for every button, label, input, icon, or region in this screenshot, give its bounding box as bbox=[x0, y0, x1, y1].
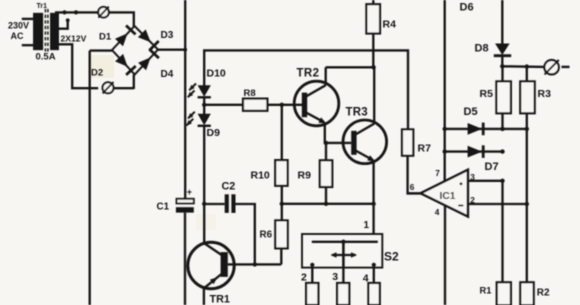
node R9 top junction bbox=[324, 141, 328, 145]
svg-text:0.5A: 0.5A bbox=[36, 52, 56, 63]
resistor R1 bbox=[497, 282, 511, 305]
capacitor C1 bbox=[176, 199, 194, 213]
transistor TR3 collector bbox=[356, 124, 375, 135]
svg-text:D5: D5 bbox=[464, 106, 478, 118]
label R10 bbox=[251, 170, 270, 182]
wire R9 bottom lead bbox=[325, 187, 327, 204]
label R2 bbox=[537, 287, 550, 298]
wire IC1 pin3 input bbox=[468, 180, 503, 182]
svg-text:D2: D2 bbox=[91, 68, 103, 79]
wire primary bottom stub bbox=[22, 44, 35, 46]
wire bridge right vertex to bus bbox=[158, 49, 185, 51]
wire S2 pin2 down bbox=[311, 265, 313, 283]
node D8 output junction bbox=[500, 64, 504, 68]
wire S2 pin1 bbox=[372, 204, 374, 234]
resistor R10 bbox=[275, 160, 287, 186]
wire R10 top lead bbox=[281, 105, 283, 160]
svg-text:S2: S2 bbox=[384, 250, 399, 264]
svg-text:D4: D4 bbox=[161, 69, 174, 80]
label R3 bbox=[538, 88, 552, 100]
wire IC1 pin7 supply bbox=[444, 0, 446, 181]
resistor R6 bbox=[275, 220, 287, 248]
svg-text:R7: R7 bbox=[418, 143, 432, 155]
label 2X12V bbox=[61, 34, 87, 44]
wire pin3 node down to R1 bbox=[501, 181, 503, 282]
node R9 bottom junction bbox=[324, 202, 328, 206]
node S2 pin2 bbox=[310, 263, 314, 267]
svg-text:TR2: TR2 bbox=[297, 68, 320, 80]
transformer Tr1 label bbox=[37, 3, 48, 10]
svg-text:6: 6 bbox=[410, 182, 415, 192]
label pin 3 bbox=[470, 172, 475, 182]
label pin 2 bbox=[470, 195, 475, 205]
wire main positive bus vertical bbox=[184, 0, 186, 199]
wire TR2 collector to R4 node bbox=[326, 66, 374, 68]
label R1 bbox=[480, 286, 492, 296]
svg-text:D9: D9 bbox=[207, 127, 221, 139]
wire primary top stub bbox=[22, 18, 35, 20]
wire R5 top lead bbox=[501, 66, 503, 81]
wire D8 cathode bbox=[501, 56, 503, 67]
svg-text:C1: C1 bbox=[157, 202, 170, 213]
svg-text:R5: R5 bbox=[480, 88, 494, 100]
wire minus output bbox=[502, 65, 544, 68]
wire IC1 pin2 input bbox=[468, 203, 527, 205]
resistor R5 bbox=[496, 81, 511, 113]
svg-text:R8: R8 bbox=[244, 88, 256, 99]
svg-text:+: + bbox=[187, 187, 192, 197]
wire D5 rail bbox=[445, 128, 527, 130]
wire R6 bottom lead bbox=[280, 248, 282, 264]
svg-text:R1: R1 bbox=[480, 286, 492, 296]
wire D7 rail bbox=[445, 150, 503, 152]
label D7 bbox=[485, 161, 499, 173]
transistor TR3 emitter bbox=[356, 151, 376, 162]
transistor TR1 emitter bbox=[205, 274, 222, 288]
op-amp IC1 plus mark bbox=[460, 182, 463, 185]
connector minus output bbox=[544, 60, 558, 75]
wire R4 bottom lead bbox=[372, 34, 374, 68]
resistor R4 bbox=[366, 4, 380, 33]
node D5 right junction bbox=[525, 127, 529, 131]
node D5 mid junction bbox=[500, 127, 504, 131]
op-amp IC1 minus mark bbox=[458, 205, 463, 207]
transformer Tr1 primary winding bbox=[34, 14, 43, 50]
resistor below pin4 bbox=[368, 283, 379, 305]
wire S2 pin3 down bbox=[342, 268, 344, 283]
label minus sign bbox=[562, 66, 570, 68]
diode D4 bbox=[138, 49, 159, 70]
label TR3 bbox=[346, 107, 368, 119]
LED D9 bbox=[187, 112, 211, 126]
label TR1 bbox=[210, 293, 230, 305]
switch S2 wiper arrows bbox=[331, 252, 358, 257]
wire R9 top lead bbox=[325, 143, 327, 160]
op-amp IC1 triangle bbox=[421, 170, 468, 217]
svg-text:7: 7 bbox=[435, 168, 440, 178]
wire negative rail vertical bbox=[89, 51, 91, 305]
label pin 6 bbox=[410, 182, 415, 192]
svg-text:IC1: IC1 bbox=[440, 191, 456, 202]
svg-text:D3: D3 bbox=[161, 30, 174, 41]
label D8 bbox=[475, 43, 489, 55]
diode D5 bbox=[468, 123, 484, 136]
svg-text:AC: AC bbox=[11, 31, 24, 41]
transistor TR2 base bar bbox=[302, 93, 307, 118]
node R4-TR3 junction bbox=[371, 65, 375, 69]
wire R5 bottom lead bbox=[501, 113, 503, 129]
label R7 bbox=[418, 143, 432, 155]
svg-text:R9: R9 bbox=[298, 170, 312, 182]
svg-text:2: 2 bbox=[301, 271, 307, 283]
node C2 left junction bbox=[202, 202, 206, 206]
node S2 pin4 bbox=[372, 263, 376, 267]
op-amp IC1 label bbox=[440, 191, 456, 202]
wire D9 down to TR1 collector bbox=[203, 126, 205, 244]
paper tint patch bbox=[89, 55, 114, 78]
resistor R3 bbox=[520, 81, 535, 113]
label C2 bbox=[222, 181, 236, 193]
connector AC bottom pre-wire bbox=[114, 87, 134, 89]
wire S2 pin4 down bbox=[373, 265, 375, 283]
label D3 bbox=[161, 30, 174, 41]
switch S2 common bar bbox=[312, 241, 378, 243]
svg-text:C2: C2 bbox=[222, 181, 236, 193]
wire R8 left lead bbox=[204, 104, 243, 106]
wire top rail to R7 bbox=[204, 50, 408, 129]
label C1 bbox=[157, 202, 170, 213]
wire C2 right lead bbox=[236, 204, 255, 264]
label 230V AC bbox=[8, 20, 29, 41]
svg-text:2X12V: 2X12V bbox=[61, 34, 87, 44]
wire R7 bottom lead bbox=[408, 156, 421, 194]
label S2 pin 4 bbox=[363, 272, 369, 284]
node R8 junction bbox=[202, 103, 206, 107]
wire R3 bottom chain bbox=[526, 113, 528, 282]
label D4 bbox=[161, 69, 174, 80]
diode D7 bbox=[468, 145, 484, 158]
wire C2 left lead bbox=[204, 203, 225, 205]
diode D1 bbox=[115, 26, 136, 47]
svg-text:D8: D8 bbox=[475, 43, 489, 55]
svg-text:TR1: TR1 bbox=[210, 293, 230, 305]
transistor TR3 circle bbox=[343, 120, 387, 164]
svg-text:3: 3 bbox=[332, 271, 338, 283]
wire D10 to D9 bbox=[203, 97, 205, 114]
wire TR3 collector up bbox=[373, 67, 375, 123]
wire C1 bottom lead bbox=[184, 213, 186, 305]
svg-text:D10: D10 bbox=[207, 68, 226, 80]
transistor TR1 base bar bbox=[221, 252, 228, 277]
diode D2 bbox=[115, 54, 136, 75]
svg-text:230V: 230V bbox=[8, 20, 29, 30]
svg-text:D1: D1 bbox=[99, 32, 112, 43]
label R9 bbox=[298, 170, 312, 182]
label D2 bbox=[91, 68, 103, 79]
label R6 bbox=[260, 230, 273, 241]
node C2 branch junction bbox=[253, 262, 257, 266]
transistor TR2 collector bbox=[306, 85, 326, 96]
wire mid rail bbox=[282, 203, 374, 205]
wire secondary top to bridge bbox=[55, 12, 134, 26]
wire R6 top lead bbox=[281, 204, 283, 221]
svg-text:D6: D6 bbox=[460, 2, 474, 14]
transformer Tr1 secondary winding bbox=[51, 14, 58, 50]
switch S2 wiper stem bbox=[342, 242, 345, 268]
wire secondary bottom bbox=[55, 44, 98, 88]
resistor below pin2 bbox=[306, 283, 318, 305]
node D5 left junction bbox=[443, 127, 447, 131]
wire D8 anode bbox=[501, 0, 503, 44]
wire to bridge bottom vertex bbox=[133, 75, 135, 90]
label D9 bbox=[207, 127, 221, 139]
svg-text:R10: R10 bbox=[251, 170, 270, 182]
label D5 bbox=[464, 106, 478, 118]
wire R3 top lead bbox=[526, 67, 528, 82]
node pin3 junction bbox=[500, 179, 504, 183]
diode D8 bbox=[494, 44, 511, 56]
node secondary tap dots bbox=[62, 10, 78, 14]
label 0.5A bbox=[36, 52, 56, 63]
wire TR3 emitter down bbox=[372, 161, 374, 205]
LED D10 bbox=[188, 84, 211, 98]
svg-text:R3: R3 bbox=[538, 88, 552, 100]
label R4 bbox=[383, 19, 397, 31]
label S2 pin 3 bbox=[332, 271, 338, 283]
transistor TR1 collector bbox=[204, 243, 223, 256]
transistor TR3 base bar bbox=[351, 131, 356, 155]
bridge diamond wires bbox=[112, 26, 158, 75]
node S2 wiper junction bbox=[341, 240, 345, 244]
svg-text:D7: D7 bbox=[485, 161, 499, 173]
wire IC1 pin6 output bbox=[408, 192, 421, 194]
node R10 top junction bbox=[280, 103, 284, 107]
label D10 bbox=[207, 68, 226, 80]
diode D3 bbox=[138, 29, 159, 50]
transistor TR2 emitter bbox=[306, 113, 326, 124]
svg-text:R6: R6 bbox=[260, 230, 273, 241]
label S2 pin 1 bbox=[364, 220, 370, 231]
node TR3 emitter junction bbox=[371, 202, 375, 206]
label D1 bbox=[99, 32, 112, 43]
wire R10 bottom lead bbox=[281, 186, 283, 204]
resistor R8 bbox=[243, 99, 267, 111]
capacitor C1 plus bbox=[187, 187, 192, 197]
node R3 top junction bbox=[525, 64, 529, 68]
svg-text:TR3: TR3 bbox=[346, 107, 368, 119]
resistor R2 bbox=[520, 282, 533, 305]
wire TR2 collector up bbox=[325, 67, 327, 85]
label TR2 bbox=[297, 68, 320, 80]
svg-text:1: 1 bbox=[364, 220, 370, 231]
label R5 bbox=[480, 88, 494, 100]
node D7 left junction bbox=[443, 149, 447, 153]
connector AC bottom bbox=[103, 82, 114, 93]
label pin 7 bbox=[435, 168, 440, 178]
transistor TR1 circle bbox=[188, 242, 234, 288]
node bus-bridge junction bbox=[183, 48, 187, 52]
svg-text:R2: R2 bbox=[537, 287, 550, 298]
capacitor C2 bbox=[225, 194, 236, 213]
paper tint patch 2 bbox=[196, 214, 216, 230]
label D6 bbox=[460, 2, 474, 14]
resistor R7 bbox=[402, 129, 413, 155]
svg-text:4: 4 bbox=[435, 207, 440, 217]
wire bridge left vertex bbox=[90, 49, 112, 51]
label S2 pin 2 bbox=[301, 271, 307, 283]
label pin 4 bbox=[435, 207, 440, 217]
svg-text:R4: R4 bbox=[383, 19, 397, 31]
wire secondary second winding stub bbox=[58, 18, 70, 28]
wire TR2 emitter down bbox=[325, 123, 351, 143]
svg-text:Tr1: Tr1 bbox=[37, 3, 48, 10]
label R8 bbox=[244, 88, 256, 99]
wire TR1 base bbox=[228, 263, 281, 265]
node D7 right junction bbox=[500, 149, 504, 153]
transistor TR2 circle bbox=[294, 81, 339, 126]
connector AC top bbox=[98, 7, 109, 18]
wire R8 right lead bbox=[267, 104, 302, 106]
node R10-R6 junction bbox=[280, 202, 284, 206]
transformer Tr1 core bbox=[45, 9, 48, 53]
wire R4 top lead bbox=[372, 0, 374, 4]
resistor R9 bbox=[320, 160, 333, 187]
node pin2 junction bbox=[525, 202, 529, 206]
label S2 bbox=[384, 250, 399, 264]
switch S2 box bbox=[302, 234, 382, 268]
resistor below pin3 bbox=[337, 283, 349, 305]
wire TR1 emitter down bbox=[203, 288, 205, 305]
wire IC1 pin4 down bbox=[444, 205, 446, 305]
